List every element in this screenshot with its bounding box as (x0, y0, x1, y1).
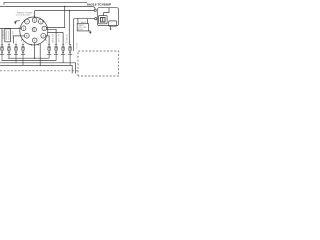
svg-text:1-3-7-2-6-5-4-8: 1-3-7-2-6-5-4-8 (16, 15, 31, 17)
svg-text:4: 4 (22, 42, 23, 44)
svg-text:600 BK-O: 600 BK-O (65, 34, 67, 43)
svg-text:ASSY: ASSY (78, 28, 84, 31)
svg-text:8A218 TC4398P: 8A218 TC4398P (87, 2, 111, 6)
svg-text:8A243: 8A243 (81, 21, 86, 24)
svg-text:605 O-Y: 605 O-Y (75, 43, 77, 51)
svg-text:602 R-BK: 602 R-BK (51, 34, 53, 43)
svg-text:3: 3 (15, 42, 16, 44)
svg-text:2: 2 (8, 42, 9, 44)
svg-text:1: 1 (1, 42, 2, 44)
svg-text:7: 7 (63, 42, 64, 44)
svg-text:8: 8 (70, 42, 71, 44)
svg-text:5: 5 (49, 42, 50, 44)
svg-text:603 W-R: 603 W-R (11, 31, 13, 39)
svg-text:6: 6 (56, 42, 57, 44)
svg-text:604 BK-W: 604 BK-W (2, 30, 4, 39)
svg-text:601 G-W: 601 G-W (57, 34, 59, 42)
